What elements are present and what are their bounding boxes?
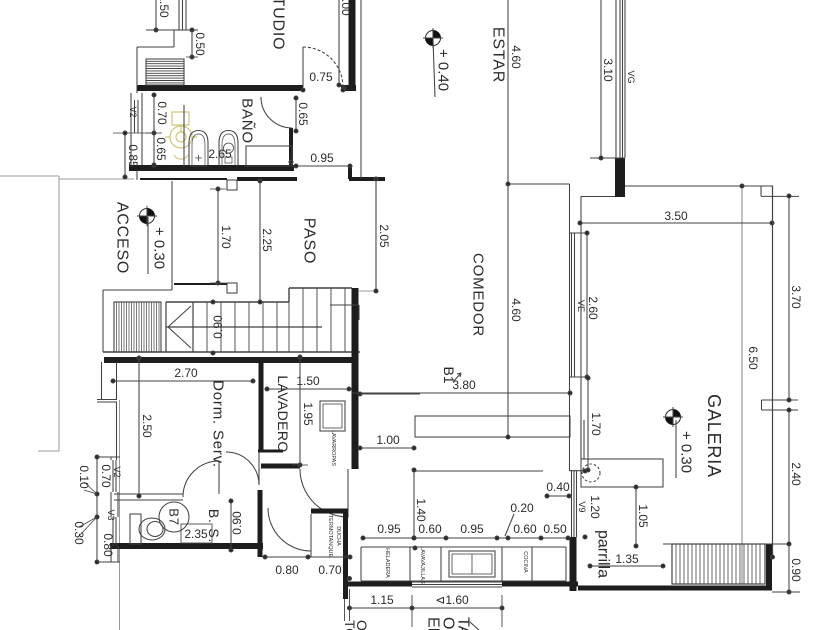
window V2 left wall: [113, 460, 116, 492]
toilet bs bowl: [139, 518, 165, 540]
wall: stairs east thick to lavadero: [352, 288, 359, 469]
threshold kitchen south: [412, 582, 502, 587]
svg-text:+ 0.40: + 0.40: [435, 49, 452, 91]
dim line y30 top-left: [146, 28, 198, 32]
svg-text:HELADERA: HELADERA: [384, 548, 390, 578]
dim 0.70/0.65 bano left: [146, 93, 162, 167]
wall: paso bottom pier: [227, 283, 237, 293]
door lavadero arc: [300, 469, 348, 517]
wall: bs south thick: [110, 543, 263, 549]
wall: bano bottom thick: [129, 165, 294, 171]
wire: floor line comedor sw: [359, 290, 376, 292]
dim 4.60 comedor: [506, 184, 510, 439]
door dorm serv arc: [226, 452, 259, 485]
svg-text:V9: V9: [577, 501, 587, 512]
svg-text:2.60: 2.60: [586, 296, 600, 320]
dim 2.25 paso: [258, 179, 262, 304]
svg-text:2.40: 2.40: [789, 462, 803, 486]
svg-text:COCINA: COCINA: [522, 551, 528, 573]
svg-text:2.70: 2.70: [174, 366, 198, 380]
stair main treads: [103, 288, 360, 352]
svg-text:VE: VE: [576, 300, 586, 312]
parrilla circle dashed: [582, 464, 600, 482]
dim 0.80/0.70 passage: [263, 555, 352, 559]
svg-text:3.80: 3.80: [452, 378, 476, 392]
svg-text:B7: B7: [167, 508, 182, 526]
wall: paso bottom west: [174, 283, 227, 285]
wire: kitchen ne corner tick: [570, 470, 590, 472]
pier paso top: [227, 180, 237, 190]
dim 0.50 vertical: [186, 30, 198, 59]
svg-text:4.60: 4.60: [509, 45, 523, 69]
svg-text:1.70: 1.70: [219, 225, 233, 249]
parrilla counter rect: [581, 459, 663, 487]
wire: galeria top thin line: [625, 186, 799, 196]
svg-text:TERMOTANQUE: TERMOTANQUE: [327, 515, 333, 558]
dim 3.10 window vg: [599, 0, 603, 160]
sink kitchen: [449, 551, 495, 577]
svg-text:2.35: 2.35: [184, 527, 208, 541]
dim 4.60 estar: [506, 0, 510, 186]
window VG estar top: [616, 0, 625, 158]
text clipped label bottom left: [342, 620, 370, 630]
wire: estar corner sill line: [581, 196, 617, 198]
svg-text:0.75: 0.75: [309, 70, 333, 84]
toilet bano: [219, 131, 238, 167]
door estudio arc dashed: [303, 47, 343, 87]
wire: galeria eave line: [741, 185, 743, 584]
dim 0.75 door: [301, 88, 345, 92]
wall: dorm west with jog: [97, 362, 117, 402]
wire: window vg sill: [590, 157, 625, 159]
svg-text:0.95: 0.95: [460, 522, 484, 536]
dim 1.20 v9: [583, 469, 587, 539]
level symbol acceso: [137, 206, 157, 274]
svg-text:1.20: 1.20: [588, 495, 602, 519]
svg-text:⊲1.60: ⊲1.60: [435, 593, 469, 607]
wall: left jog bs west: [104, 402, 119, 562]
dim 2.05 paso east: [374, 177, 378, 293]
svg-text:0.50: 0.50: [193, 32, 207, 56]
vanity bano rect: [246, 146, 292, 166]
svg-text:0.90: 0.90: [789, 558, 803, 582]
window V2 glazing: [135, 100, 139, 133]
wall: lavadero south: [261, 464, 300, 469]
svg-text:2.00: 2.00: [339, 0, 353, 16]
svg-text:ENTREPISO: ENTREPISO: [425, 617, 442, 630]
svg-text:6.50: 6.50: [746, 346, 760, 370]
svg-text:1.00: 1.00: [376, 433, 400, 447]
svg-text:1.70: 1.70: [589, 412, 603, 436]
wall: dorm+lavadero north: [104, 357, 352, 363]
dim 6.50 galeria: [771, 186, 775, 559]
svg-text:1.40: 1.40: [414, 498, 428, 522]
svg-text:0.20: 0.20: [510, 501, 534, 515]
wire: parrilla top edge: [663, 543, 790, 545]
B1 arrow tick: [453, 373, 461, 382]
wall: kitchen north line: [415, 470, 543, 472]
svg-text:DUCHA: DUCHA: [335, 526, 341, 546]
svg-text:0.60: 0.60: [418, 522, 442, 536]
svg-text:0.80: 0.80: [275, 563, 299, 577]
wall: vestibule corner at paso: [349, 166, 385, 179]
wire: wall line y30: [174, 29, 186, 31]
stair landing arrows: [168, 306, 191, 348]
svg-text:1.50: 1.50: [157, 0, 171, 18]
dim 3.50 galeria top: [578, 184, 774, 225]
svg-text:0.10: 0.10: [77, 465, 91, 489]
svg-text:0.80: 0.80: [101, 533, 115, 557]
svg-text:0.70: 0.70: [318, 563, 342, 577]
svg-text:0.65: 0.65: [296, 102, 310, 126]
svg-text:V3: V3: [106, 509, 116, 520]
wall: hall east: [258, 490, 263, 557]
window W top-left 3 lines: [179, 0, 186, 30]
dim 2.40 galeria right: [787, 408, 791, 546]
door bano arc: [261, 97, 292, 128]
dim 1.40 kitchen: [412, 468, 416, 540]
level symbol estar: [423, 28, 443, 97]
dim 0.20 leader: [505, 514, 514, 536]
dim 0.85 left: [113, 131, 154, 179]
dim 1.95 lavadero: [292, 355, 308, 467]
toilet bs tank: [130, 514, 141, 544]
dim 1.15/1.60 bottom: [345, 546, 505, 627]
dim 2.50 dorm: [137, 356, 141, 498]
beam bracket galeria mid: [762, 400, 799, 410]
wall: acceso/bath left link: [136, 170, 138, 180]
wall: estar west line: [360, 0, 362, 178]
door bano leaf: [260, 97, 262, 99]
text clipped label bottom center: [425, 617, 472, 630]
svg-text:+ 0.30: + 0.30: [151, 227, 168, 269]
bidet bano: [189, 131, 208, 167]
wall: estudio bottom right stub: [341, 85, 356, 91]
svg-text:0.85: 0.85: [126, 144, 140, 168]
svg-text:PASO: PASO: [301, 218, 318, 264]
stairs top-left hatch: [146, 59, 184, 85]
svg-text:1.50: 1.50: [296, 374, 320, 388]
dim 1.70 kitchen east: [586, 376, 590, 472]
wall: dorm south stub east: [258, 450, 283, 453]
svg-text:V2: V2: [112, 466, 122, 477]
svg-text:COMEDOR: COMEDOR: [470, 253, 487, 337]
svg-text:0.65: 0.65: [154, 137, 168, 161]
wall: kitchen south: [343, 582, 578, 587]
washer lavarropas: [320, 401, 345, 431]
svg-text:0.90: 0.90: [211, 315, 225, 339]
wall: garage/stair left: [103, 290, 172, 352]
wall: parrilla east: [766, 544, 772, 590]
svg-text:2.05: 2.05: [377, 224, 391, 248]
svg-text:LAVARROPAS: LAVARROPAS: [330, 430, 336, 466]
dim 0.90 parrilla right: [772, 544, 800, 594]
svg-text:1.35: 1.35: [615, 552, 639, 566]
dim 0.95 vestibule: [289, 160, 352, 168]
wall: bano right below door: [289, 128, 293, 166]
dim 1.35 parrilla: [588, 564, 665, 568]
svg-text:3.10: 3.10: [601, 58, 615, 82]
svg-text:parrilla: parrilla: [595, 530, 612, 578]
svg-text:0.70: 0.70: [155, 101, 169, 125]
svg-text:LAVADERO: LAVADERO: [275, 375, 291, 452]
dim 1.05 parrilla: [634, 485, 638, 548]
dim 1.50 top-left vertical line: [154, 0, 158, 32]
wall: galeria west outer face: [580, 197, 582, 459]
B7 circle: [159, 502, 189, 532]
wall: dorm east / lavadero west: [259, 357, 264, 451]
window V9 kitchen east: [572, 471, 577, 537]
wall: parrilla south: [578, 586, 772, 591]
svg-text:0.50: 0.50: [543, 522, 567, 536]
dim 2.00 estudio: [337, 0, 346, 90]
svg-text:VG: VG: [626, 70, 636, 83]
door bs arc: [183, 461, 219, 497]
wall: estudio right thick: [349, 0, 356, 87]
dim 2.70 dorm: [111, 379, 255, 383]
parrilla hatch block: [672, 544, 765, 584]
svg-text:OT: OT: [354, 620, 370, 630]
svg-text:0.30: 0.30: [72, 521, 86, 545]
dim 1.50 lavadero: [265, 387, 351, 391]
svg-text:0.90: 0.90: [230, 511, 244, 535]
svg-text:BAÑO: BAÑO: [239, 98, 256, 144]
partition bano sink: [183, 105, 185, 167]
window V3 left wall: [113, 517, 116, 546]
svg-text:2.65: 2.65: [208, 147, 232, 161]
wall: kitchen east south: [570, 537, 577, 591]
wall: bano left double: [131, 93, 142, 170]
kitchen counter outline: [361, 547, 566, 581]
stairs lower dense hatch: [114, 302, 161, 352]
svg-text:1.95: 1.95: [301, 402, 315, 426]
svg-text:GALERIA: GALERIA: [704, 394, 724, 478]
svg-text:ESTUDIO: ESTUDIO: [270, 0, 287, 50]
svg-text:0.40: 0.40: [546, 480, 570, 494]
level symbol galeria: [663, 407, 683, 478]
dim 1.70 paso: [210, 187, 226, 285]
svg-text:+ 0.30: + 0.30: [678, 431, 695, 473]
svg-text:0.95: 0.95: [377, 522, 401, 536]
svg-text:1.05: 1.05: [636, 504, 650, 528]
svg-text:3.70: 3.70: [789, 285, 803, 309]
dim 0.40 parrilla: [545, 494, 571, 498]
dim chain left v2/v3: [79, 455, 120, 564]
dim text 2.35: [181, 524, 212, 543]
wall: estudio bottom left segment: [137, 85, 303, 91]
wall: comedor sw stub: [330, 288, 359, 320]
dim 3.70 galeria right: [787, 194, 791, 402]
dim 1.00 kitchen opening: [358, 392, 420, 450]
wall: kitchen west passage: [311, 511, 348, 599]
stair upper flight top edge: [289, 288, 352, 302]
svg-text:ACCESO: ACCESO: [114, 202, 131, 274]
svg-text:TANQUE: TANQUE: [455, 617, 472, 630]
svg-text:LAVAVAJILLAS: LAVAVAJILLAS: [419, 546, 425, 584]
svg-text:3.50: 3.50: [664, 209, 688, 223]
wall: passage stub west: [263, 514, 311, 557]
wall: estar se corner block: [615, 158, 625, 197]
wall: paso top west + pier: [140, 178, 227, 180]
window VE comedor: [572, 233, 575, 377]
boundary acceso gray: [0, 176, 134, 451]
comedor sideboard rect: [415, 416, 570, 437]
wire: estar-comedor boundary thin: [508, 183, 570, 185]
svg-text:2.25: 2.25: [260, 228, 274, 252]
wall: paso west: [171, 181, 173, 290]
svg-text:4.60: 4.60: [509, 298, 523, 322]
svg-text:0.95: 0.95: [310, 151, 334, 165]
dim 2.60 window ve: [585, 231, 589, 379]
dim 0.90 bs: [229, 499, 233, 552]
sink bano yellow: [165, 112, 197, 159]
svg-text:1.15: 1.15: [370, 593, 394, 607]
svg-text:V2: V2: [128, 106, 138, 117]
stair center line: [166, 326, 322, 328]
dim 0.65 bano door: [294, 96, 298, 133]
wall: bs north + door: [114, 494, 183, 500]
dim 0.90 stair: [211, 300, 215, 355]
svg-text:0.70: 0.70: [99, 464, 113, 488]
svg-text:Dorm. Serv.: Dorm. Serv.: [210, 380, 227, 468]
svg-text:B. S.: B. S.: [206, 509, 222, 543]
svg-text:OESTE: OESTE: [440, 617, 457, 630]
dim 3.80 comedor B1: [352, 391, 572, 395]
svg-text:2.50: 2.50: [140, 414, 154, 438]
svg-text:ESTAR: ESTAR: [490, 27, 507, 83]
wall: comedor east inner face: [569, 184, 571, 471]
door kitchen arc: [268, 508, 311, 551]
wall: estudio upper-left jog: [137, 30, 174, 93]
dim kitchen chain: [361, 536, 570, 540]
door estudio leaf: [302, 47, 304, 87]
svg-text:0.60: 0.60: [513, 522, 537, 536]
